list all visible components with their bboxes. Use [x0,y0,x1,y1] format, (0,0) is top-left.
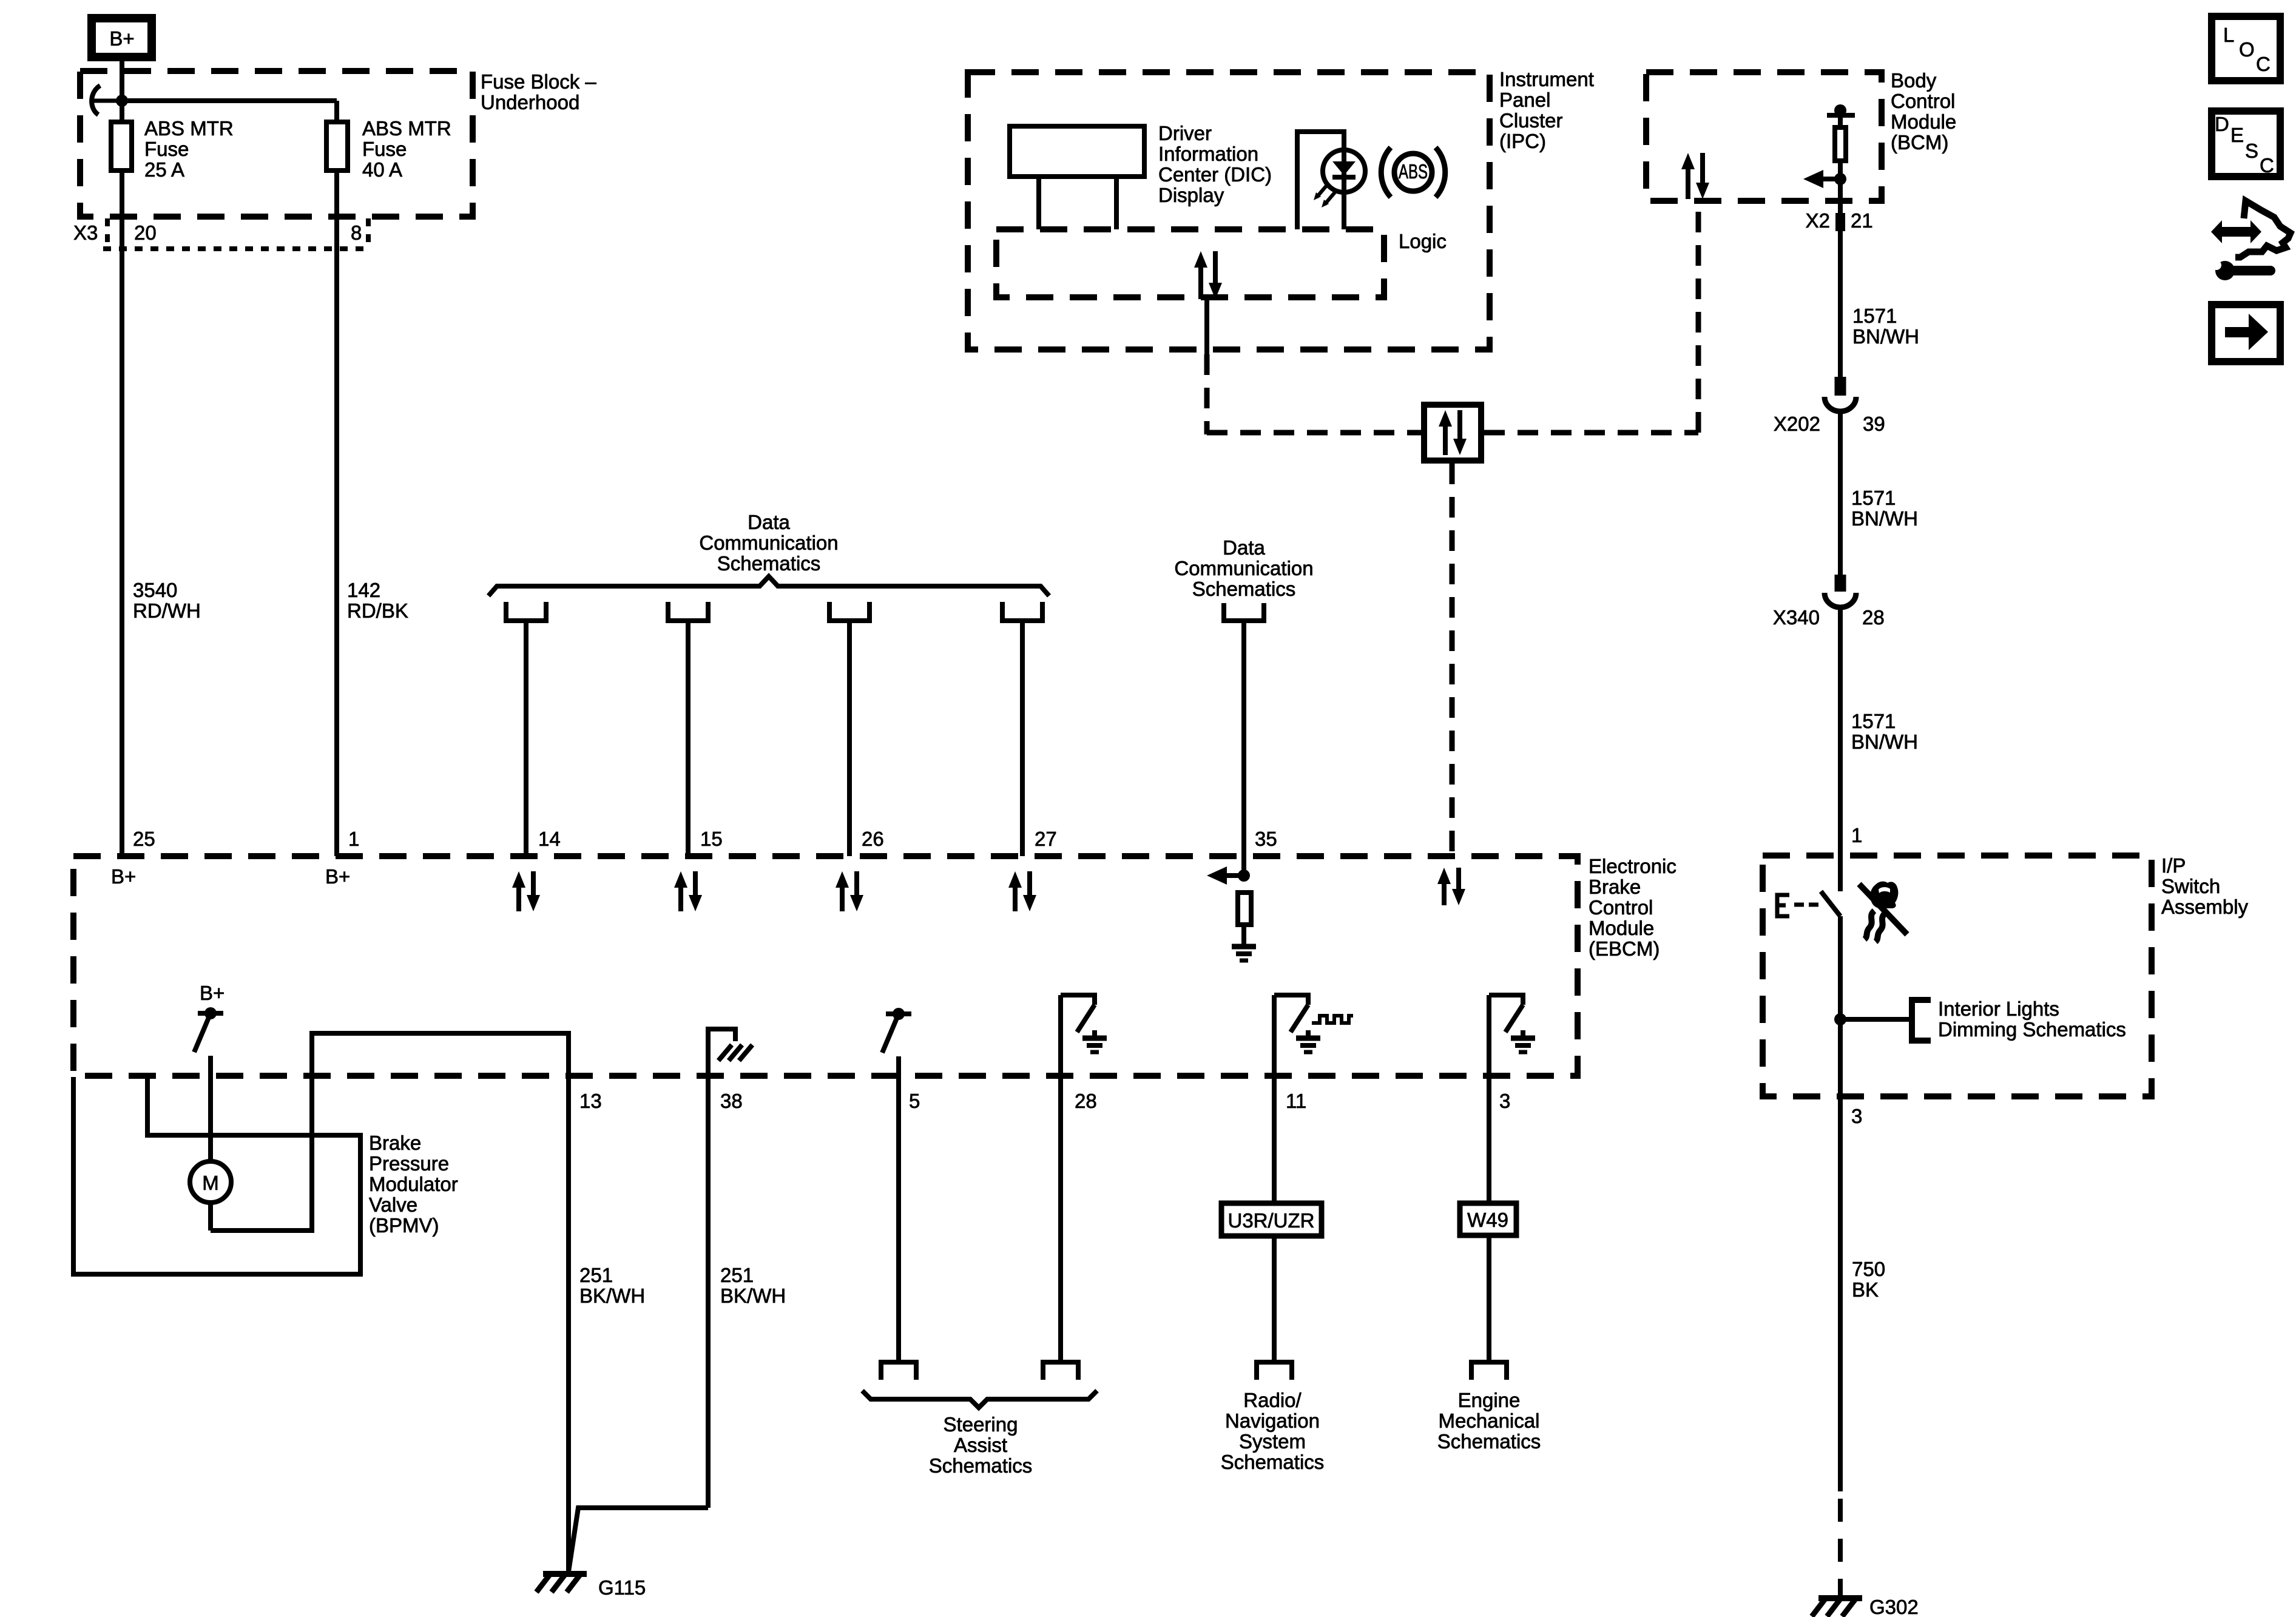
svg-text:39: 39 [1863,413,1885,435]
svg-text:Pressure: Pressure [369,1152,449,1175]
svg-text:1571: 1571 [1851,710,1896,732]
svg-text:(IPC): (IPC) [1499,130,1546,152]
svg-text:Data: Data [1223,536,1265,559]
svg-text:1: 1 [1851,824,1862,846]
svg-text:27: 27 [1035,828,1057,850]
svg-text:BK: BK [1852,1278,1879,1301]
svg-text:Steering: Steering [944,1413,1018,1436]
svg-text:251: 251 [579,1264,613,1286]
svg-text:5: 5 [909,1090,920,1112]
svg-text:X202: X202 [1774,413,1820,435]
svg-text:Fuse Block –: Fuse Block – [481,70,596,93]
svg-text:BN/WH: BN/WH [1851,731,1918,753]
svg-text:Instrument: Instrument [1499,68,1594,90]
svg-text:C: C [2256,53,2271,75]
svg-text:Brake: Brake [369,1132,421,1154]
svg-text:26: 26 [862,828,884,850]
svg-text:Modulator: Modulator [369,1173,458,1195]
svg-text:20: 20 [134,221,157,244]
svg-text:RD/WH: RD/WH [133,599,201,622]
svg-text:Assist: Assist [954,1434,1007,1456]
svg-text:W49: W49 [1467,1209,1508,1231]
svg-text:Radio/: Radio/ [1243,1389,1302,1411]
svg-text:Interior Lights: Interior Lights [1938,998,2059,1020]
svg-text:ABS MTR: ABS MTR [362,117,451,140]
svg-text:B+: B+ [111,865,136,888]
svg-text:S: S [2245,140,2258,162]
svg-text:Dimming Schematics: Dimming Schematics [1938,1018,2126,1041]
svg-text:ABS MTR: ABS MTR [144,117,234,140]
svg-text:O: O [2239,38,2255,61]
svg-text:Display: Display [1158,184,1224,206]
svg-text:3: 3 [1499,1090,1510,1112]
svg-text:BK/WH: BK/WH [720,1284,786,1307]
svg-text:BN/WH: BN/WH [1851,507,1918,530]
svg-text:142: 142 [347,579,380,601]
svg-text:(BPMV): (BPMV) [369,1214,439,1237]
svg-text:Data: Data [748,511,790,533]
svg-text:M: M [202,1172,219,1194]
svg-text:251: 251 [720,1264,754,1286]
svg-text:25 A: 25 A [144,158,184,181]
svg-text:G115: G115 [598,1576,646,1599]
svg-text:Module: Module [1589,917,1654,939]
svg-text:Center (DIC): Center (DIC) [1158,163,1272,186]
svg-text:1571: 1571 [1852,305,1897,327]
svg-text:Electronic: Electronic [1589,855,1676,877]
svg-text:Schematics: Schematics [1437,1430,1541,1453]
svg-text:Control: Control [1891,90,1955,112]
svg-text:8: 8 [351,221,362,244]
svg-text:25: 25 [133,828,155,850]
svg-text:(EBCM): (EBCM) [1589,937,1660,960]
svg-text:(BCM): (BCM) [1891,131,1948,154]
svg-text:40 A: 40 A [362,158,402,181]
svg-text:1: 1 [348,828,359,850]
svg-text:Brake: Brake [1589,876,1641,898]
svg-text:750: 750 [1852,1258,1885,1280]
svg-text:Module: Module [1891,110,1956,133]
svg-text:U3R/UZR: U3R/UZR [1227,1209,1314,1232]
svg-text:Information: Information [1158,143,1258,165]
svg-text:Schematics: Schematics [1192,578,1296,600]
svg-text:28: 28 [1862,606,1885,629]
svg-text:Mechanical: Mechanical [1439,1409,1540,1432]
svg-text:14: 14 [538,828,561,850]
svg-text:15: 15 [700,828,723,850]
svg-text:3540: 3540 [133,579,177,601]
svg-text:C: C [2260,154,2274,177]
svg-text:RD/BK: RD/BK [347,599,408,622]
svg-text:L: L [2223,24,2234,46]
svg-text:X3: X3 [73,221,98,244]
svg-text:Engine: Engine [1458,1389,1521,1411]
svg-text:BN/WH: BN/WH [1852,325,1919,348]
svg-text:Assembly: Assembly [2161,896,2249,918]
svg-text:13: 13 [579,1090,602,1112]
svg-text:B+: B+ [109,27,134,50]
svg-text:3: 3 [1851,1105,1862,1127]
svg-text:21: 21 [1851,209,1873,232]
svg-text:Navigation: Navigation [1225,1409,1320,1432]
svg-text:Schematics: Schematics [1221,1451,1325,1473]
svg-text:Schematics: Schematics [717,552,821,575]
svg-text:28: 28 [1075,1090,1097,1112]
svg-text:ABS: ABS [1399,160,1428,183]
svg-text:Fuse: Fuse [362,138,407,160]
svg-text:BK/WH: BK/WH [579,1284,645,1307]
svg-text:Cluster: Cluster [1499,109,1563,132]
svg-text:Body: Body [1891,69,1937,92]
svg-text:Communication: Communication [1174,557,1313,579]
svg-text:I/P: I/P [2161,854,2186,877]
svg-text:E: E [2230,124,2244,146]
svg-text:Fuse: Fuse [144,138,189,160]
svg-text:Logic: Logic [1399,230,1447,252]
svg-text:X340: X340 [1773,606,1820,629]
svg-text:Switch: Switch [2161,875,2220,897]
svg-text:B+: B+ [325,865,350,888]
svg-text:35: 35 [1255,828,1277,850]
svg-text:Schematics: Schematics [929,1454,1033,1477]
svg-text:Communication: Communication [699,532,838,554]
svg-text:D: D [2215,113,2229,135]
svg-text:1571: 1571 [1851,487,1896,509]
svg-text:System: System [1239,1430,1306,1453]
svg-text:11: 11 [1286,1090,1306,1112]
svg-text:38: 38 [720,1090,743,1112]
svg-text:Driver: Driver [1158,122,1212,144]
svg-text:X2: X2 [1806,209,1830,232]
svg-text:Panel: Panel [1499,89,1550,111]
svg-text:Control: Control [1589,896,1653,919]
svg-text:G302: G302 [1869,1596,1919,1617]
svg-text:Underhood: Underhood [481,91,579,113]
svg-text:Valve: Valve [369,1193,417,1216]
svg-text:B+: B+ [200,982,225,1004]
